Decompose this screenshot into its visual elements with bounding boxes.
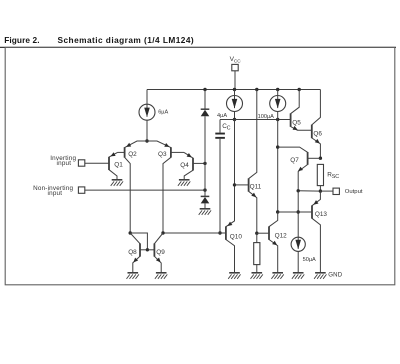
wire node to bias resistor: [256, 233, 258, 242]
node rail-Q5 junction: [298, 88, 301, 91]
svg-text:CC: CC: [234, 58, 241, 63]
diode D1: [201, 109, 210, 116]
ground under Q10: [228, 273, 240, 279]
svg-text:Q6: Q6: [313, 131, 322, 138]
transistor Q7: [278, 147, 321, 191]
transistor Q2: [118, 147, 131, 233]
wire Q10 emitter riser: [234, 120, 236, 222]
label Q13: [315, 211, 328, 218]
ground under Q13: [314, 273, 326, 279]
wire D2 to ground: [204, 203, 206, 208]
label Cc: [222, 123, 231, 132]
node Q3 collector / Q9: [161, 231, 164, 234]
wire clamp chain: [204, 116, 206, 196]
current source 4uA: [227, 96, 243, 112]
label inverting input: [50, 155, 76, 167]
svg-text:input: input: [57, 160, 72, 167]
label Q9: [156, 249, 165, 256]
terminal inverting input: [78, 160, 84, 166]
svg-text:Q10: Q10: [230, 233, 243, 240]
label Output: [345, 189, 363, 195]
svg-text:SC: SC: [332, 174, 340, 180]
ground under bias resistor: [251, 273, 263, 279]
ground under 50uA: [292, 273, 304, 279]
node rail-Vcc junction: [233, 88, 236, 91]
label Q8: [128, 249, 137, 256]
ground under Q8: [127, 273, 139, 279]
wire rail to 6uA source: [146, 90, 148, 105]
svg-text:Q11: Q11: [250, 184, 262, 191]
svg-text:6µA: 6µA: [158, 110, 168, 116]
svg-text:4µA: 4µA: [217, 113, 227, 119]
wire non-inverting input: [85, 189, 205, 191]
ground under Q12: [271, 273, 283, 279]
resistor Rsc: [317, 164, 323, 185]
wire 4uA source down: [234, 111, 236, 119]
transistor Q4: [184, 152, 205, 179]
transistor Q8: [130, 233, 147, 273]
svg-text:Output: Output: [345, 189, 363, 195]
transistor Q12: [257, 212, 278, 273]
terminal Output: [333, 188, 339, 194]
transistor Q13: [278, 191, 321, 273]
node Q7 emitter branch: [297, 189, 300, 192]
label 100uA: [258, 114, 275, 120]
svg-text:Q2: Q2: [128, 151, 137, 158]
label Rsc: [327, 172, 339, 181]
node Q2 collector / Q8: [129, 231, 132, 234]
wire emitter arm to Q3: [147, 141, 171, 148]
label GND: [328, 271, 343, 278]
ground under Q9: [155, 273, 167, 279]
label non-inverting input: [33, 185, 73, 197]
node input pair emitters: [145, 139, 148, 142]
wire VCC rail: [147, 89, 320, 91]
wire Q7 emitter to output node: [298, 190, 320, 192]
wire Rsc bottom: [319, 186, 321, 192]
label 4uA: [217, 113, 227, 119]
label Q2: [128, 151, 137, 158]
svg-text:Q12: Q12: [275, 232, 288, 239]
svg-text:Q3: Q3: [158, 151, 167, 158]
wire Cc top lead: [219, 120, 221, 133]
ground under diode chain: [199, 209, 211, 215]
svg-text:Q8: Q8: [128, 249, 137, 256]
label Q6: [313, 131, 322, 138]
node Q4 base / clamp chain: [203, 162, 206, 165]
ground under Q4: [178, 180, 190, 186]
wire Q8 collector to bases jog: [130, 233, 147, 250]
wire 100uA source down: [277, 111, 279, 212]
label Q1: [114, 162, 123, 169]
label Q3: [158, 151, 167, 158]
node Q12 base / bias resistor: [255, 232, 258, 235]
transistor Q1: [85, 152, 118, 180]
wire output branch down: [297, 191, 299, 238]
wire output node to terminal: [320, 190, 333, 192]
svg-text:Q4: Q4: [180, 162, 189, 169]
transistor Q5: [291, 90, 312, 131]
label Q11: [250, 184, 262, 191]
wire rail to diode D1: [204, 90, 206, 110]
label Q5: [292, 120, 301, 127]
node Q7 collector tap: [276, 145, 279, 148]
transistor Q6: [312, 90, 321, 159]
svg-text:Q5: Q5: [292, 120, 301, 127]
node rail-100uA junction: [276, 88, 279, 91]
node Q12 collector / Q13 base: [276, 210, 279, 213]
svg-text:GND: GND: [328, 271, 343, 278]
svg-text:Q9: Q9: [156, 249, 165, 256]
schematic frame: [5, 47, 395, 284]
wire rail to 4uA source: [234, 90, 236, 96]
node 100uA / Q5 base wire: [276, 118, 279, 121]
node Cc / Q10 base wire: [218, 231, 221, 234]
label Q4: [180, 162, 189, 169]
svg-text:Q1: Q1: [114, 162, 123, 169]
svg-text:100µA: 100µA: [258, 114, 275, 120]
ground under Q1: [111, 180, 123, 186]
current source 100uA: [270, 96, 286, 112]
svg-text:Figure 2.: Figure 2.: [4, 35, 39, 45]
terminal non-inverting input: [78, 187, 84, 193]
node 50uA / Q13 base wire: [297, 210, 300, 213]
terminal VCC: [232, 64, 238, 89]
figure title text: [4, 35, 194, 45]
svg-text:input: input: [48, 190, 63, 197]
wire Cc bottom lead: [219, 139, 221, 233]
node 4uA / Q5 base wire: [233, 118, 236, 121]
wire bias resistor to ground: [256, 265, 258, 273]
label VCC: [230, 56, 242, 64]
wire Cc node to Q5 base: [220, 119, 291, 121]
label Q10: [230, 233, 243, 240]
resistor bias: [254, 243, 260, 265]
current source 50uA: [291, 237, 305, 251]
diode D2: [201, 196, 210, 203]
label 50uA: [303, 257, 316, 263]
current source 6uA: [139, 104, 155, 120]
svg-text:Schematic diagram (1/4 LM124): Schematic diagram (1/4 LM124): [58, 35, 195, 45]
node rail-diode junction: [203, 88, 206, 91]
label Q7: [290, 157, 299, 164]
wire emitter arm to Q2: [125, 141, 147, 148]
svg-text:C: C: [227, 126, 231, 132]
transistor Q11: [235, 90, 257, 234]
figure title rule: [0, 46, 396, 48]
svg-text:Q7: Q7: [290, 157, 299, 164]
node Q8 Q9 common base: [146, 248, 149, 251]
svg-text:50µA: 50µA: [303, 257, 316, 263]
svg-text:Q13: Q13: [315, 211, 328, 218]
wire 50uA to ground: [297, 251, 299, 272]
node rail-Q11 junction: [255, 88, 258, 91]
wire rail to 100uA source: [277, 90, 279, 96]
node Q6 emitter / Rsc top / Q7 base: [319, 157, 322, 160]
transistor Q10: [226, 221, 235, 273]
node non-inverting / clamp chain: [203, 188, 206, 191]
node Q11 base tap: [233, 183, 236, 186]
label 6uA: [158, 110, 168, 116]
wire mirror to Q10 base: [163, 232, 226, 234]
transistor Q9: [147, 233, 163, 273]
node output: [319, 189, 322, 192]
label Q12: [275, 232, 288, 239]
capacitor Cc: [215, 133, 225, 139]
transistor Q3: [163, 147, 184, 233]
wire 6uA to input pair node: [146, 120, 148, 141]
